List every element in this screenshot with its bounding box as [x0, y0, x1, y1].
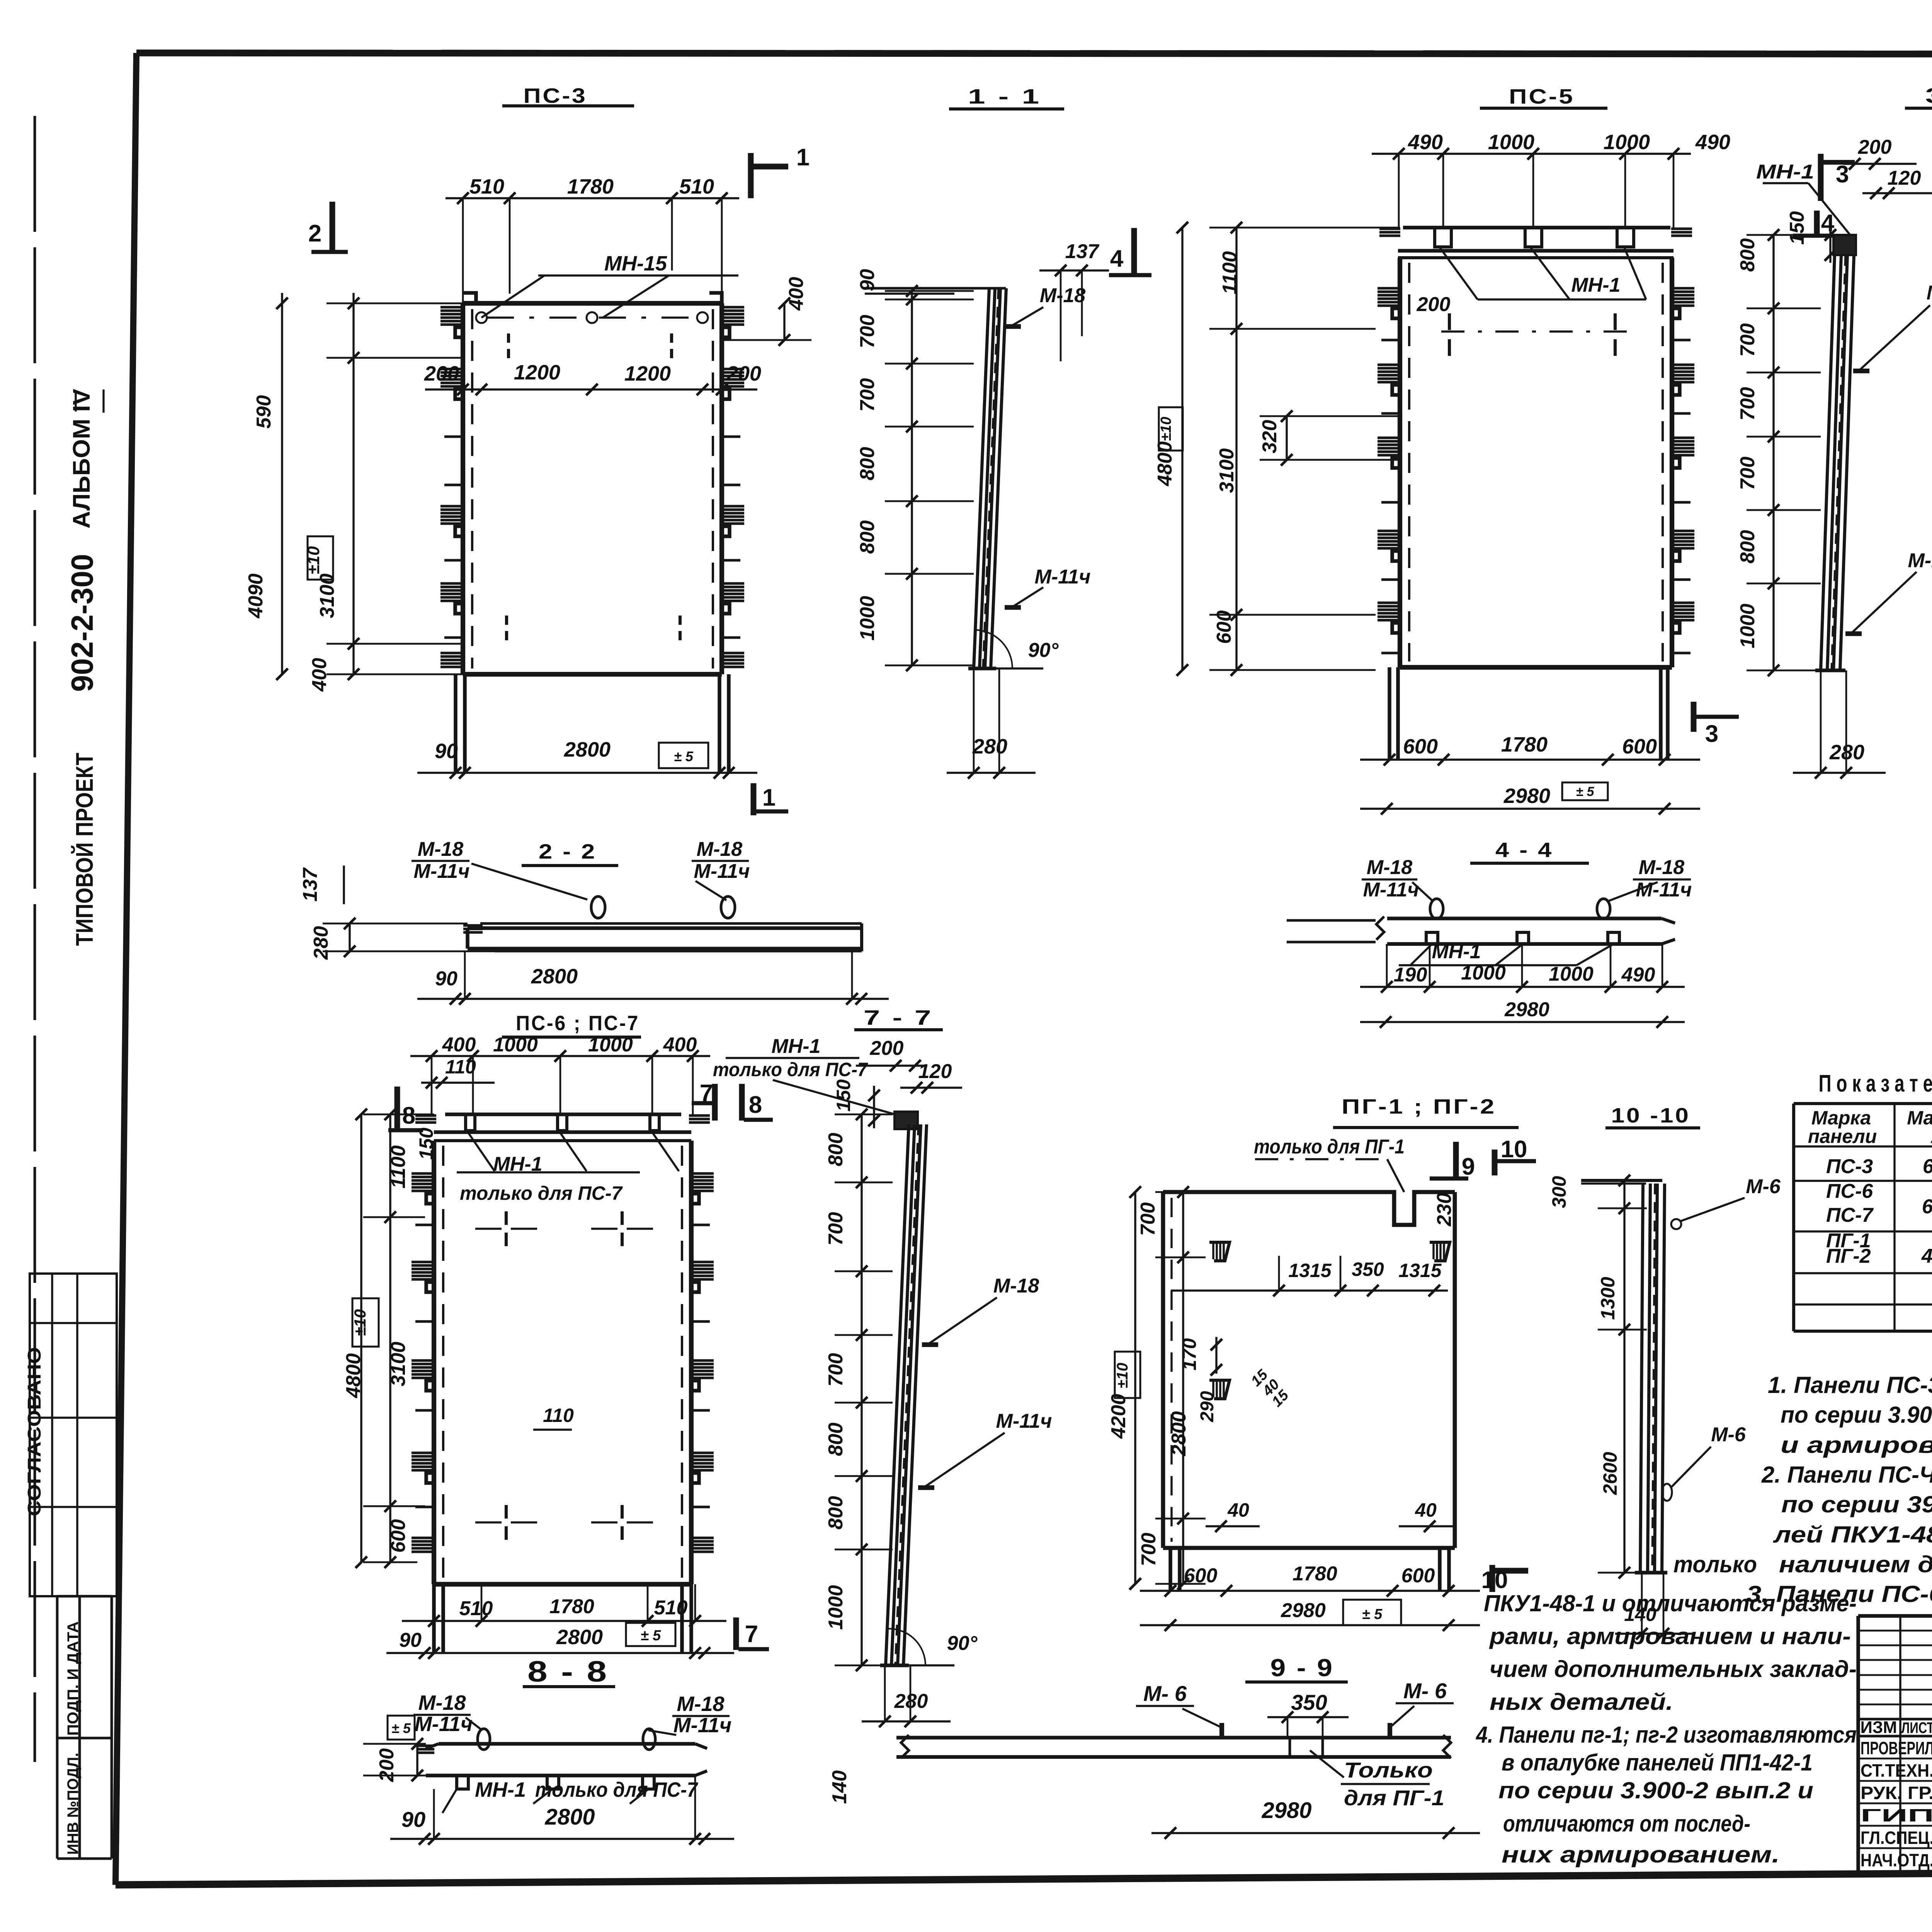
svg-text:П о к а з а т е л и н а 1: П о к а з а т е л и н а 1 п а н е л ь — [1819, 1070, 1932, 1097]
svg-text:1000: 1000 — [1461, 962, 1506, 984]
svg-text:±10: ±10 — [1158, 417, 1174, 441]
svg-text:ЛИСТ: ЛИСТ — [1901, 1719, 1932, 1736]
svg-text:510: 510 — [654, 1597, 688, 1619]
svg-text:3: 3 — [1705, 721, 1718, 747]
svg-text:200: 200 — [726, 362, 761, 385]
1-1 formwork bars — [974, 288, 989, 668]
svg-text:только для ПС-7: только для ПС-7 — [460, 1182, 623, 1204]
svg-text:1780: 1780 — [1501, 733, 1548, 756]
svg-text:280: 280 — [310, 926, 332, 960]
8-8 bottom dim 90/2800 — [390, 1838, 734, 1840]
svg-text:170: 170 — [1179, 1338, 1200, 1371]
svg-text:4800: 4800 — [1154, 441, 1176, 486]
svg-text:± 5: ± 5 — [674, 748, 694, 764]
svg-text:150: 150 — [833, 1079, 854, 1112]
1-1 top cap lines — [865, 287, 1006, 290]
svg-text:М-18: М-18 — [418, 1691, 466, 1714]
4-4 lifting loops — [1430, 899, 1443, 919]
svg-text:290: 290 — [1197, 1391, 1218, 1422]
svg-text:600: 600 — [387, 1519, 410, 1553]
svg-text:200: 200 — [1858, 136, 1892, 158]
svg-text:90: 90 — [435, 740, 458, 763]
PG-1 funnel anchors — [1209, 1242, 1230, 1261]
svg-text:1000: 1000 — [1736, 604, 1759, 648]
svg-text:ных деталей.: ных деталей. — [1490, 1689, 1673, 1715]
svg-text:800: 800 — [825, 1133, 847, 1167]
svg-text:±10: ±10 — [351, 1309, 369, 1336]
svg-text:ПГ-1 ; ПГ-2: ПГ-1 ; ПГ-2 — [1342, 1095, 1496, 1118]
svg-text:них армированием.: них армированием. — [1502, 1842, 1780, 1867]
svg-text:ГЛ.СПЕЦ.: ГЛ.СПЕЦ. — [1861, 1828, 1932, 1848]
svg-text:М-11ч: М-11ч — [1636, 879, 1692, 901]
4-4 bottom dim 190/1000/1000/490 — [1360, 986, 1685, 988]
cut marker 3 top — [1818, 154, 1824, 201]
svg-text:350: 350 — [1352, 1259, 1384, 1280]
svg-text:2980: 2980 — [1504, 998, 1549, 1021]
svg-text:902-2-300: 902-2-300 — [65, 554, 99, 692]
PS-5 bottom dim 600/1780/600 — [1360, 759, 1700, 760]
PS-5 center dashdot — [1441, 330, 1634, 332]
svg-text:150: 150 — [415, 1128, 437, 1160]
svg-text:М-11ч: М-11ч — [1908, 549, 1932, 572]
svg-text:600: 600 — [1213, 611, 1235, 644]
10-10 formwork bars — [1640, 1184, 1643, 1573]
svg-text:1 - 1: 1 - 1 — [968, 85, 1041, 108]
svg-text:600: 600 — [1401, 1565, 1435, 1587]
svg-text:по серии 3.900-2 вып.2 и: по серии 3.900-2 вып.2 и — [1498, 1777, 1813, 1803]
svg-text:М-18: М-18 — [993, 1275, 1039, 1297]
svg-text:по серии 3.900-2 вып 7 и о: по серии 3.900-2 вып 7 и отличаются от с… — [1781, 1402, 1932, 1428]
3-3 left dim chain — [1772, 235, 1774, 670]
svg-text:230: 230 — [1433, 1193, 1456, 1227]
PS-6 top cap with tabs — [445, 1112, 681, 1116]
svg-text:800: 800 — [825, 1423, 847, 1456]
svg-text:МН-1: МН-1 — [1571, 274, 1620, 296]
svg-text:200: 200 — [424, 362, 459, 385]
PS-3 panel outline — [463, 301, 722, 306]
PS-6 body — [432, 1141, 436, 1584]
svg-text:1315: 1315 — [1288, 1260, 1332, 1281]
svg-text:панели: панели — [1808, 1126, 1877, 1147]
svg-text:М-11ч: М-11ч — [415, 1713, 473, 1736]
PS-5 320 sub dim — [1286, 416, 1287, 460]
9-9 bottom dim 2980 — [1151, 1832, 1480, 1834]
svg-text:10: 10 — [1481, 1567, 1508, 1594]
PS-6 center marks — [505, 1211, 508, 1225]
svg-text:90: 90 — [399, 1629, 422, 1651]
PS-3 left dim chain 590/3100/400 total 4090 — [352, 293, 354, 674]
svg-text:110: 110 — [445, 1056, 476, 1078]
cut marker 10 bottom right — [1490, 1565, 1495, 1592]
svg-text:М-11ч: М-11ч — [1035, 566, 1091, 588]
svg-text:137: 137 — [299, 867, 321, 902]
PS-5 edge notches — [1378, 287, 1402, 290]
7-7 formwork bars — [886, 1124, 909, 1665]
svg-text:320: 320 — [1259, 420, 1281, 454]
svg-text:М-6: М-6 — [1746, 1175, 1781, 1198]
svg-text:8: 8 — [402, 1102, 415, 1129]
svg-text:СОГЛАСОВАНО: СОГЛАСОВАНО — [24, 1347, 45, 1516]
svg-text:6.0: 6.0 — [1923, 1155, 1932, 1178]
PG-1 legs — [1168, 1548, 1172, 1591]
svg-text:700: 700 — [825, 1353, 847, 1387]
svg-text:700: 700 — [825, 1212, 847, 1246]
svg-text:1200: 1200 — [514, 361, 560, 384]
4-4 anchor tabs — [1426, 932, 1438, 944]
left margin line — [34, 116, 36, 1762]
svg-text:ПС-3: ПС-3 — [524, 84, 587, 107]
svg-text:3: 3 — [1836, 161, 1849, 188]
svg-text:ИЗМ: ИЗМ — [1861, 1718, 1897, 1737]
svg-text:1315: 1315 — [1398, 1260, 1442, 1281]
cut marker 8 left — [395, 1087, 400, 1132]
svg-text:510: 510 — [459, 1597, 493, 1620]
svg-text:±10: ±10 — [304, 546, 323, 575]
svg-text:400: 400 — [663, 1034, 697, 1056]
svg-text:МН-1: МН-1 — [771, 1035, 820, 1058]
svg-text:только для ПГ-1: только для ПГ-1 — [1254, 1136, 1405, 1158]
cut marker 9 top — [1453, 1142, 1459, 1180]
svg-text:2800: 2800 — [1168, 1411, 1190, 1456]
svg-text:1780: 1780 — [549, 1595, 594, 1618]
PG-1 bottom dim 600/1780/600 — [1140, 1590, 1480, 1592]
left margin box grid upper — [30, 1274, 117, 1596]
svg-text:800: 800 — [856, 520, 879, 554]
svg-text:М-18: М-18 — [1367, 856, 1413, 879]
svg-text:6,7: 6,7 — [1922, 1196, 1932, 1218]
svg-text:2980: 2980 — [1261, 1798, 1311, 1823]
svg-text:МН-15: МН-15 — [604, 252, 667, 275]
svg-text:4800: 4800 — [342, 1353, 365, 1398]
2-2 lifting loops — [591, 896, 605, 918]
PS-3 bottom dimension 90/2800 — [417, 772, 757, 774]
svg-text:ИНВ №ПОДЛ.: ИНВ №ПОДЛ. — [65, 1753, 82, 1855]
cut marker 4 — [1814, 211, 1820, 236]
svg-text:9: 9 — [1462, 1153, 1475, 1180]
svg-text:ПС-6 ; ПС-7: ПС-6 ; ПС-7 — [516, 1012, 639, 1035]
svg-text:2800: 2800 — [564, 738, 611, 761]
svg-text:2: 2 — [308, 220, 321, 247]
svg-text:200: 200 — [1417, 293, 1451, 316]
svg-text:ПКУ1-48-1 и отличаются разме-: ПКУ1-48-1 и отличаются разме- — [1484, 1590, 1857, 1616]
svg-text:МН-1: МН-1 — [1432, 940, 1481, 963]
table Pokazateli — [1794, 1102, 1932, 1105]
svg-text:400: 400 — [308, 658, 331, 692]
4-4 bottom dim 2980 — [1360, 1021, 1685, 1023]
svg-text:2980: 2980 — [1281, 1599, 1326, 1622]
svg-text:± 5: ± 5 — [1576, 784, 1594, 799]
svg-text:1. Панели ПС-3 изготавляютс: 1. Панели ПС-3 изготавляются в опалубке … — [1768, 1372, 1932, 1398]
svg-text:1100: 1100 — [1219, 251, 1241, 294]
svg-text:М-11ч: М-11ч — [1363, 879, 1419, 901]
PS-5 top dim 490/1000/1000/490 — [1372, 153, 1691, 155]
section cut marker 1 (top right) — [748, 153, 754, 198]
PG-1 left dim chain 700/2800/700 total 4200 — [1184, 1192, 1185, 1584]
svg-text:рами, армированием и нали-: рами, армированием и нали- — [1489, 1623, 1851, 1649]
svg-text:и армированием.: и армированием. — [1781, 1432, 1932, 1458]
svg-text:1780: 1780 — [1293, 1563, 1337, 1585]
svg-text:ПС-7: ПС-7 — [1826, 1204, 1874, 1226]
svg-text:110: 110 — [543, 1405, 574, 1426]
svg-text:1200: 1200 — [624, 362, 671, 385]
svg-text:АЛЬБОМ IV: АЛЬБОМ IV — [68, 389, 95, 529]
cut marker 7 bottom — [733, 1617, 739, 1650]
svg-text:М-18: М-18 — [697, 838, 743, 861]
PS-6 left dim chain 1100/3100 total 4800 — [389, 1114, 391, 1562]
svg-text:2800: 2800 — [544, 1804, 595, 1830]
PS-3 center marks — [507, 333, 510, 343]
8-8 slab strip — [439, 1742, 695, 1746]
9-9 anchor posts — [1219, 1723, 1224, 1738]
PG-1 1315/350/1315 dim — [1171, 1289, 1448, 1291]
svg-text:280: 280 — [972, 735, 1007, 758]
svg-text:МН-1: МН-1 — [1756, 161, 1814, 183]
PS-3 inner dashed lines — [471, 309, 473, 668]
svg-text:90: 90 — [856, 269, 879, 291]
7-7 anchor blob — [895, 1112, 918, 1129]
PS-5 bottom dim 2980 — [1360, 808, 1700, 810]
svg-text:3 - 3: 3 - 3 — [1925, 84, 1932, 107]
svg-text:700: 700 — [856, 315, 879, 349]
PS-3 right edge notches — [719, 306, 744, 309]
svg-text:НАЧ.ОТД.: НАЧ.ОТД. — [1861, 1850, 1932, 1870]
svg-text:4. Панели пг-1; пг-2 изготав: 4. Панели пг-1; пг-2 изготавляются — [1476, 1722, 1857, 1748]
left margin box grid lower — [56, 1596, 59, 1859]
svg-text:только для ПС-7: только для ПС-7 — [713, 1059, 868, 1080]
svg-text:ПС-3: ПС-3 — [1826, 1155, 1873, 1178]
svg-text:только для ПС-7: только для ПС-7 — [535, 1778, 699, 1801]
svg-text:1000: 1000 — [493, 1034, 538, 1056]
2-2 slab strip — [480, 922, 862, 925]
PG-1 inner dashed — [1170, 1198, 1172, 1542]
svg-text:490: 490 — [1695, 131, 1730, 154]
section cut marker 2 (top) — [330, 202, 335, 253]
svg-text:800: 800 — [1736, 238, 1759, 272]
svg-text:Масса: Масса — [1907, 1107, 1932, 1129]
svg-text:4090: 4090 — [245, 573, 267, 619]
PS-3 right 400 label — [783, 303, 785, 340]
PS-3 legs — [454, 674, 457, 773]
svg-text:отличаются от послед-: отличаются от послед- — [1503, 1811, 1750, 1837]
svg-text:для ПГ-1: для ПГ-1 — [1344, 1786, 1444, 1810]
svg-text:1000: 1000 — [856, 596, 879, 641]
svg-text:7: 7 — [745, 1621, 758, 1648]
svg-text:150: 150 — [1786, 211, 1808, 245]
svg-text:1000: 1000 — [825, 1585, 847, 1630]
svg-text:490: 490 — [1408, 131, 1443, 154]
svg-text:СТ.ТЕХН.: СТ.ТЕХН. — [1861, 1760, 1932, 1781]
2-2 bottom dim 90/2800/90 — [417, 998, 889, 1000]
svg-text:700: 700 — [1137, 1202, 1159, 1236]
PS-5 left dim chain 1100/3100/600 total 4800 — [1235, 228, 1237, 670]
svg-text:400: 400 — [442, 1034, 476, 1056]
svg-text:700: 700 — [1138, 1533, 1160, 1566]
svg-text:2. Панели ПС-Ч изготавляются: 2. Панели ПС-Ч изготавляются в опалубке … — [1761, 1462, 1932, 1488]
PS-6 inner dashed — [442, 1146, 444, 1578]
PS-6 bottom dim 90/2800 — [386, 1652, 734, 1654]
svg-text:М-18: М-18 — [1927, 282, 1932, 304]
svg-text:РУК. ГР.: РУК. ГР. — [1861, 1783, 1932, 1803]
svg-text:700: 700 — [1736, 387, 1759, 421]
svg-text:40: 40 — [1227, 1499, 1249, 1521]
9-9 slab strip — [896, 1736, 1451, 1740]
svg-text:8 - 8: 8 - 8 — [527, 1655, 609, 1688]
svg-text:137: 137 — [1065, 240, 1100, 263]
svg-text:10: 10 — [1501, 1136, 1527, 1163]
10-10 left dim chain 300/1300/2600 — [1623, 1180, 1625, 1573]
PS-3 anchor circles on top — [476, 312, 487, 323]
svg-text:М-18: М-18 — [1639, 856, 1685, 879]
PS-5 inner dashed lines — [1408, 263, 1410, 662]
svg-text:4: 4 — [1110, 245, 1124, 272]
7-7 cut marker 7|8 top — [712, 1084, 718, 1121]
svg-text:1000: 1000 — [588, 1034, 633, 1056]
svg-text:М-11ч: М-11ч — [694, 860, 750, 883]
svg-text:200: 200 — [870, 1037, 904, 1060]
PG-1 outline with notch — [1163, 1192, 1455, 1225]
svg-text:800: 800 — [825, 1496, 847, 1530]
svg-text:4200: 4200 — [1107, 1394, 1130, 1439]
svg-text:ПС-5: ПС-5 — [1509, 85, 1575, 108]
PS-6 edge notches — [412, 1172, 436, 1175]
section cut marker 1 (bottom) — [751, 783, 757, 815]
4-4 slab strip — [1287, 919, 1376, 922]
PG-1 bottom dim 2980 — [1140, 1624, 1480, 1626]
svg-text:наличием дополнительных закл: наличием дополнительных закладных детале… — [1779, 1551, 1932, 1577]
svg-text:600: 600 — [1622, 735, 1657, 758]
section cut marker 4 (left) — [1131, 228, 1137, 276]
svg-text:ТИПОВОЙ ПРОЕКТ: ТИПОВОЙ ПРОЕКТ — [71, 753, 98, 946]
svg-text:90: 90 — [401, 1807, 425, 1832]
svg-text:90: 90 — [435, 968, 457, 990]
9-9 center insert — [1289, 1738, 1291, 1757]
svg-text:510: 510 — [469, 175, 504, 198]
1-1 left dim chain 90/700/700/800/800/1000 — [911, 291, 913, 665]
svg-text:4.4: 4.4 — [1921, 1245, 1932, 1267]
svg-text:ПРОВЕРИЛ: ПРОВЕРИЛ — [1861, 1738, 1932, 1758]
svg-text:300: 300 — [1548, 1176, 1570, 1208]
svg-text:3100: 3100 — [1216, 448, 1238, 493]
svg-text:90°: 90° — [947, 1632, 978, 1655]
svg-text:1100: 1100 — [387, 1145, 410, 1189]
svg-text:1000: 1000 — [1604, 131, 1650, 154]
cut marker 10 top right — [1492, 1150, 1498, 1175]
svg-text:9 - 9: 9 - 9 — [1270, 1654, 1334, 1682]
8-8 lifting loops — [478, 1729, 490, 1750]
svg-text:7 - 7: 7 - 7 — [864, 1006, 933, 1029]
PS-6 top dim 400/1000/1000/400 — [410, 1055, 710, 1057]
PS-3 left edge notches — [440, 306, 465, 309]
svg-text:3100: 3100 — [387, 1342, 410, 1386]
svg-text:140: 140 — [828, 1770, 851, 1804]
svg-text:± 5: ± 5 — [391, 1720, 411, 1736]
svg-text:490: 490 — [1621, 964, 1655, 986]
svg-text:ПГ-2: ПГ-2 — [1826, 1245, 1871, 1267]
svg-text:190: 190 — [1394, 964, 1427, 986]
svg-text:2600: 2600 — [1599, 1452, 1621, 1495]
svg-text:8: 8 — [749, 1092, 762, 1118]
svg-text:800: 800 — [1736, 530, 1759, 564]
PS-5 body — [1398, 258, 1402, 667]
svg-text:М-11ч: М-11ч — [414, 860, 470, 883]
svg-text:120: 120 — [1888, 167, 1921, 189]
svg-text:чием дополнительных заклад-: чием дополнительных заклад- — [1490, 1656, 1857, 1682]
8-8 anchor tabs below — [457, 1776, 468, 1789]
svg-text:4 - 4: 4 - 4 — [1495, 838, 1553, 862]
svg-text:700: 700 — [1736, 457, 1759, 490]
svg-text:М-11ч: М-11ч — [673, 1714, 732, 1737]
10-10 top cap — [1581, 1179, 1662, 1182]
svg-text:700: 700 — [1736, 323, 1759, 357]
svg-text:2800: 2800 — [531, 965, 578, 988]
svg-text:40: 40 — [1415, 1499, 1437, 1521]
svg-text:600: 600 — [1184, 1565, 1218, 1587]
svg-text:ГИП: ГИП — [1861, 1805, 1932, 1825]
svg-text:в опалубке панелей ПП1-42-1: в опалубке панелей ПП1-42-1 — [1502, 1750, 1813, 1776]
svg-text:1780: 1780 — [567, 175, 614, 198]
svg-text:М-6: М-6 — [1711, 1423, 1746, 1446]
svg-text:10 -10: 10 -10 — [1611, 1104, 1690, 1127]
PG-1 center mark — [1309, 1291, 1310, 1325]
PS-6 bottom dim 510/1780/510 — [402, 1620, 726, 1622]
svg-text:1000: 1000 — [1549, 963, 1594, 985]
svg-text:7: 7 — [700, 1080, 713, 1107]
drawing frame border — [136, 53, 1932, 54]
section cut marker 3 (bottom) — [1691, 702, 1697, 732]
svg-text:М-18: М-18 — [677, 1692, 724, 1716]
PS-3 top dimension 510/1780/510 — [446, 197, 739, 199]
svg-text:590: 590 — [253, 395, 275, 429]
svg-text:2 - 2: 2 - 2 — [539, 840, 597, 863]
svg-text:510: 510 — [679, 175, 714, 198]
svg-text:1: 1 — [762, 784, 776, 811]
svg-text:700: 700 — [856, 378, 879, 412]
3-3 formwork bars — [1821, 255, 1835, 670]
svg-text:± 5: ± 5 — [641, 1628, 661, 1644]
svg-text:400: 400 — [785, 277, 808, 311]
PS-5 top cap with tabs — [1403, 226, 1670, 230]
svg-text:лей ПКУ1-48-1 по серии 3.90: лей ПКУ1-48-1 по серии 3.900-2 вып.7 и о… — [1772, 1522, 1932, 1548]
svg-text:М- 6: М- 6 — [1143, 1681, 1187, 1706]
svg-text:1000: 1000 — [1488, 131, 1534, 154]
svg-text:МН-1: МН-1 — [475, 1778, 526, 1801]
svg-text:200: 200 — [376, 1748, 398, 1782]
svg-text:М-11ч: М-11ч — [996, 1410, 1052, 1432]
7-7 left dim chain — [861, 1114, 862, 1665]
title block signature table — [1856, 1616, 1860, 1874]
svg-text:800: 800 — [856, 447, 879, 481]
svg-text:1: 1 — [796, 144, 810, 171]
svg-text:600: 600 — [1403, 735, 1438, 758]
3-3 anchor blob — [1833, 235, 1856, 255]
svg-text:М- 6: М- 6 — [1403, 1679, 1447, 1703]
svg-text:2800: 2800 — [556, 1626, 603, 1649]
svg-text:Только: Только — [1344, 1758, 1433, 1782]
svg-text:по серии 3900-2 вып.2 ; пане: по серии 3900-2 вып.2 ; панели ПС-5 - в … — [1781, 1492, 1932, 1517]
svg-text:2980: 2980 — [1503, 784, 1550, 808]
svg-text:350: 350 — [1291, 1690, 1327, 1714]
svg-text:1: 1 — [1930, 1126, 1932, 1147]
svg-text:± 5: ± 5 — [1362, 1606, 1383, 1622]
PS-5 legs — [1388, 667, 1391, 760]
svg-text:ПОДП. И ДАТА: ПОДП. И ДАТА — [65, 1621, 82, 1736]
svg-text:ПС-6: ПС-6 — [1826, 1180, 1873, 1202]
svg-text:М-18: М-18 — [1040, 284, 1086, 307]
svg-text:120: 120 — [918, 1060, 952, 1083]
svg-text:90°: 90° — [1028, 639, 1059, 662]
svg-text:±10: ±10 — [1114, 1363, 1131, 1388]
svg-text:1300: 1300 — [1597, 1277, 1619, 1320]
